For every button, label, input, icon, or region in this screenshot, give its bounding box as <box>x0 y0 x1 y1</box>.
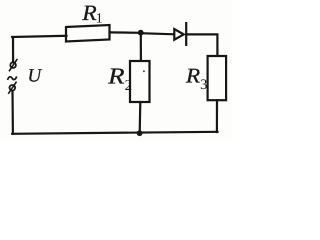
wire top-left horizontal (source to R1) <box>12 36 66 37</box>
svg-text:1: 1 <box>96 12 103 27</box>
wire diode cathode to top-right corner and down to R3 <box>186 34 217 55</box>
label R1 <box>81 0 102 26</box>
wire bottom horizontal <box>12 132 217 134</box>
wire R1 to node A <box>110 31 141 34</box>
resistor R2 <box>130 61 150 102</box>
scan speck (inside R2 box) <box>143 70 145 72</box>
svg-text:2: 2 <box>125 78 133 94</box>
terminal bottom (circle with slash) <box>9 82 16 93</box>
node B (junction dot bottom) <box>137 130 143 136</box>
wire node A to diode anode <box>141 33 174 34</box>
label U <box>28 66 43 87</box>
wire left vertical lower (terminal to bottom corner) <box>11 92 14 134</box>
label R3 <box>185 64 208 93</box>
svg-text:3: 3 <box>200 77 207 93</box>
resistor R1 <box>66 25 110 42</box>
label R2 <box>107 64 132 94</box>
AC tilde symbol <box>8 77 17 80</box>
svg-text:R: R <box>107 64 125 89</box>
svg-text:R: R <box>185 64 201 88</box>
svg-text:U: U <box>28 66 43 87</box>
wire R2 bottom lead <box>139 102 142 133</box>
diode VD <box>174 23 186 45</box>
resistor R3 <box>208 56 227 100</box>
wire R3 bottom lead <box>216 100 218 132</box>
wire R2 top lead (node A to R2) <box>140 33 142 61</box>
wire left vertical upper (top corner to terminal) <box>12 37 14 62</box>
terminal top (circle with slash) <box>10 60 17 71</box>
node A (junction dot top) <box>138 30 144 36</box>
